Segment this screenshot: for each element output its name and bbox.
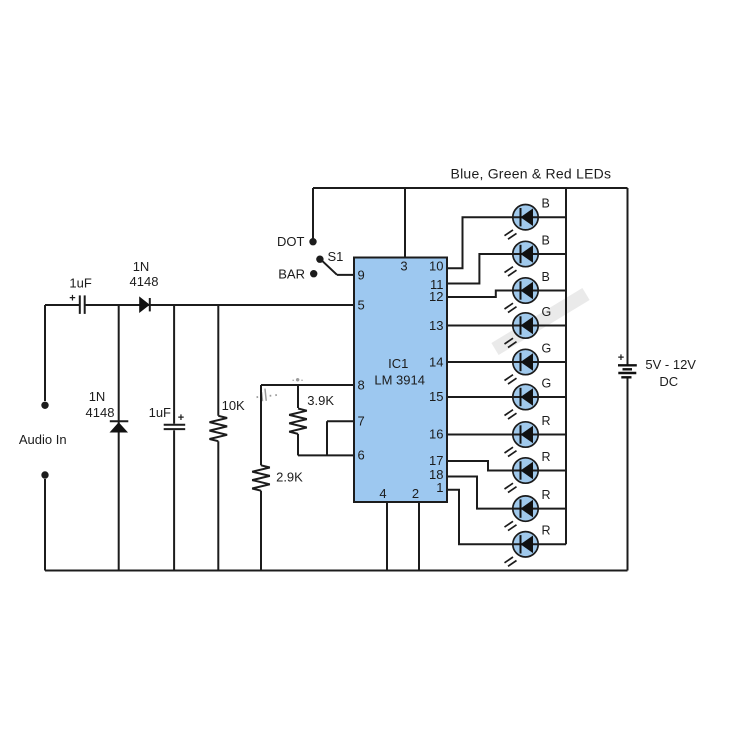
svg-text:2.9K: 2.9K [276,470,303,485]
svg-text:B: B [542,233,550,247]
svg-text:5V - 12V: 5V - 12V [645,357,696,372]
svg-text:DC: DC [659,374,678,389]
svg-text:IC1: IC1 [388,356,408,371]
svg-text:4148: 4148 [86,405,115,420]
svg-text:15: 15 [429,389,443,404]
svg-text:R: R [542,414,551,428]
svg-text:14: 14 [429,355,443,370]
svg-text:Audio In: Audio In [19,432,67,447]
svg-text:R: R [542,524,551,538]
svg-text:7: 7 [358,414,365,429]
svg-text:13: 13 [429,318,443,333]
svg-text:BAR: BAR [278,267,305,282]
svg-text:10: 10 [429,259,443,274]
svg-text:B: B [542,197,550,211]
svg-text:G: G [542,305,552,319]
svg-text:12: 12 [429,289,443,304]
svg-text:1: 1 [436,480,443,495]
svg-text:S1: S1 [328,249,344,264]
svg-text:R: R [542,488,551,502]
svg-text:1uF: 1uF [149,405,171,420]
svg-text:DOT: DOT [277,234,305,249]
svg-text:1N: 1N [89,389,106,404]
svg-text:16: 16 [429,427,443,442]
svg-text:+: + [618,352,624,364]
svg-text:4148: 4148 [130,274,159,289]
svg-text:+: + [69,293,75,305]
svg-text:B: B [542,270,550,284]
svg-text:3: 3 [400,259,407,274]
svg-text:10K: 10K [222,398,245,413]
svg-text:9: 9 [358,268,365,283]
svg-text:4: 4 [379,486,386,501]
svg-text:8: 8 [358,378,365,393]
svg-text:G: G [542,341,552,355]
svg-text:Blue, Green & Red LEDs: Blue, Green & Red LEDs [451,166,612,182]
svg-text:17: 17 [429,453,443,468]
svg-text:·il··: ·il·· [253,385,279,406]
svg-text:+: + [178,412,184,424]
svg-text:1N: 1N [133,259,150,274]
svg-text:2: 2 [412,486,419,501]
svg-text:LM 3914: LM 3914 [374,373,425,388]
svg-text:1uF: 1uF [69,276,91,291]
svg-text:3.9K: 3.9K [307,393,334,408]
svg-text:5: 5 [358,298,365,313]
svg-text:6: 6 [358,448,365,463]
svg-text:R: R [542,450,551,464]
svg-text:G: G [542,376,552,390]
